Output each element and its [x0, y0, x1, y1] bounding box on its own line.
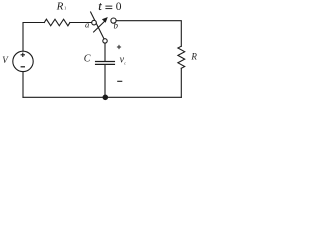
voltage source minus sign	[21, 66, 25, 68]
label minus below v	[117, 80, 122, 82]
capacitor C top plate	[96, 61, 115, 63]
junction dot	[103, 95, 109, 101]
switch blade from pole through a	[91, 12, 105, 41]
voltage source V circle	[13, 51, 33, 71]
wire from switch pole down to capacitor	[104, 43, 106, 61]
svg-text:R: R	[190, 51, 197, 61]
resistor R	[178, 46, 185, 68]
svg-text:a: a	[85, 20, 89, 30]
wire bottom rail	[23, 96, 181, 98]
switch pole	[103, 39, 107, 43]
svg-text:V: V	[2, 55, 9, 65]
label + above v	[117, 45, 121, 49]
svg-text:0: 0	[116, 1, 122, 13]
switch motion arrow	[94, 21, 105, 32]
resistor R1	[44, 19, 70, 26]
wire left side from source bottom down to bottom rail	[22, 72, 24, 98]
wire top-left from source up and right to resistor R1	[23, 23, 44, 52]
svg-text:R: R	[56, 0, 64, 12]
svg-text:C: C	[84, 54, 91, 65]
voltage source plus sign	[21, 53, 25, 57]
switch motion arrowhead	[102, 17, 108, 23]
capacitor C bottom plate	[96, 63, 115, 65]
svg-text:b: b	[114, 21, 119, 31]
svg-text:1: 1	[64, 6, 66, 11]
svg-text:t: t	[98, 1, 102, 13]
svg-text:c: c	[124, 61, 126, 66]
wire right side down from R to bottom rail	[180, 68, 182, 97]
wire from capacitor down to junction	[104, 65, 106, 97]
wire from R1 to switch terminal a	[70, 22, 92, 24]
wire from switch terminal b to top-right corner and down to R	[116, 21, 181, 47]
switch terminal b	[111, 18, 116, 23]
switch terminal a	[92, 20, 97, 25]
